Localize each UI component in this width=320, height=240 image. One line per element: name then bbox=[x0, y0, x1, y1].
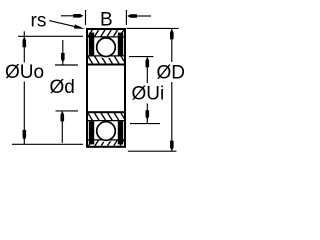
dimension D arrow down bbox=[170, 141, 174, 151]
dimension d upper extension tick bbox=[55, 64, 78, 66]
dimension D upper extension line bbox=[127, 27, 179, 29]
dimension Uo arrow down bbox=[23, 130, 27, 141]
dimension d lower extension tick bbox=[56, 110, 79, 112]
dimension D line lower segment bbox=[171, 82, 173, 151]
dimension B right arrow and shaft bbox=[137, 15, 152, 17]
dimension Ui upper extension line bbox=[129, 56, 154, 58]
outer ring hatching (top section) bbox=[75, 30, 136, 58]
outer ring hatching (bottom section) bbox=[76, 120, 130, 146]
dimension Ui arrow down bbox=[146, 110, 150, 120]
left shield (top section) bbox=[89, 33, 94, 56]
bore line left bbox=[86, 65, 88, 113]
svg-text:rs: rs bbox=[31, 11, 47, 32]
dimension d arrow up bbox=[61, 111, 65, 121]
inner ring hatching (top section) bbox=[75, 36, 133, 64]
dimension d line upper segment bbox=[62, 40, 64, 65]
dimension D arrow up bbox=[170, 29, 174, 39]
dimension Ui line lower segment bbox=[146, 104, 148, 124]
dimension Uo lower extension line bbox=[12, 143, 83, 145]
svg-text:ØD: ØD bbox=[157, 62, 186, 83]
outer raceway shoulder line (top section) bbox=[88, 36, 124, 38]
svg-text:ØUi: ØUi bbox=[132, 84, 165, 105]
bore line right bbox=[124, 65, 126, 113]
dimension B extension tick left bbox=[85, 10, 87, 25]
dimension Ui line upper segment bbox=[146, 57, 148, 83]
inner raceway shoulder line (bottom section) bbox=[88, 120, 124, 122]
dimension d arrow down bbox=[61, 53, 65, 63]
svg-text:B: B bbox=[100, 9, 113, 30]
bearing outer ring bottom section outline bbox=[87, 112, 125, 147]
dimension Uo line lower segment bbox=[23, 82, 25, 145]
left shield (bottom section) bbox=[89, 121, 94, 144]
dimension Ui lower extension line bbox=[130, 123, 160, 125]
ball (top section) bbox=[97, 38, 116, 57]
inner ring hatching (bottom section) bbox=[75, 113, 133, 142]
dimension B left arrow and shaft bbox=[61, 15, 77, 17]
svg-text:Ød: Ød bbox=[50, 77, 75, 98]
inner raceway shoulder line (top section) bbox=[88, 55, 124, 57]
dimension D lower extension line bbox=[128, 150, 177, 152]
dimension d line lower segment bbox=[61, 111, 63, 143]
dimension B extension tick right bbox=[125, 10, 127, 25]
dimension Uo line upper segment bbox=[23, 31, 25, 62]
right shield (top section) bbox=[118, 33, 123, 56]
rs leader line and arrow bbox=[49, 21, 77, 28]
dimension D line upper segment bbox=[171, 29, 173, 62]
dimension Uo arrow up bbox=[23, 37, 27, 47]
outer raceway shoulder line (bottom section) bbox=[88, 139, 124, 141]
right shield (bottom section) bbox=[118, 121, 123, 144]
bearing outer ring top section outline bbox=[87, 29, 125, 65]
dimension Ui arrow up bbox=[146, 57, 150, 67]
ball (bottom section) bbox=[97, 122, 116, 141]
dimension Uo upper extension line bbox=[18, 35, 83, 37]
svg-text:ØUo: ØUo bbox=[5, 62, 44, 83]
